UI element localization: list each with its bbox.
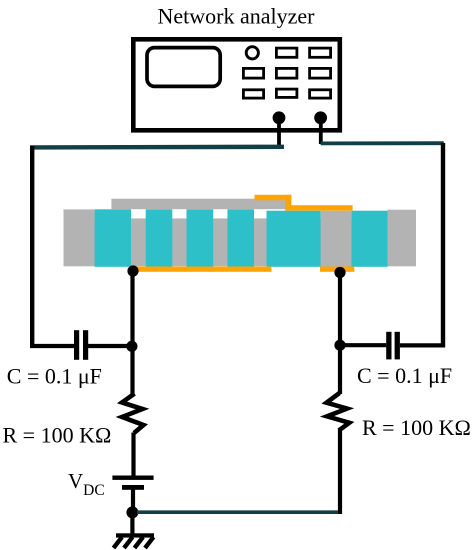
ground hatch 1 — [114, 537, 123, 548]
port 2 stem wire — [319, 118, 323, 144]
ground hatch 3 — [135, 537, 144, 548]
network analyzer display screen — [147, 48, 220, 87]
IDT finger 4 (teal) — [227, 209, 254, 266]
button row1 col2 — [276, 48, 297, 57]
wire: resistor R2 down to bottom return — [338, 430, 342, 514]
right transducer teal block 2 — [351, 211, 387, 267]
svg-text:VDC: VDC — [68, 469, 105, 499]
resistor R2 zigzag — [327, 393, 350, 431]
SAW device: left busbar block — [64, 209, 95, 266]
wire: node B to capacitor C2 — [340, 343, 386, 347]
svg-text:R = 100 KΩ: R = 100 KΩ — [362, 415, 471, 440]
svg-text:R = 100 KΩ: R = 100 KΩ — [3, 423, 112, 448]
port 2 terminal dot — [314, 111, 327, 124]
wire: top right teal wire from port2 to right rail — [321, 141, 444, 145]
svg-text:C = 0.1 μF: C = 0.1 μF — [7, 364, 102, 389]
wire: top left teal wire from port1 to left rail — [30, 145, 284, 150]
capacitor C2 plate 2 — [395, 332, 400, 360]
node: right device terminal dot — [334, 267, 345, 278]
ground hatch 4 — [145, 537, 154, 548]
node: left device terminal dot — [127, 265, 138, 276]
ground hatch 2 — [124, 537, 133, 548]
port 1 terminal dot — [273, 111, 286, 124]
orange top trace upper segment — [255, 195, 292, 201]
orange top trace step — [285, 195, 291, 211]
wire: bottom teal return wire — [137, 510, 342, 514]
button row2 col1 — [243, 68, 263, 78]
port 1 stem wire — [277, 118, 281, 147]
node A junction dot (left) — [126, 341, 137, 352]
orange bottom left trace — [133, 267, 272, 272]
battery V_DC short plate — [122, 485, 144, 490]
wire: node B to resistor R2 — [338, 345, 342, 394]
wire: node A to resistor R1 — [130, 346, 134, 394]
capacitor C1 plate 1 — [74, 330, 79, 360]
SAW device: right busbar block — [388, 210, 417, 267]
button row2 col2 — [276, 68, 297, 78]
svg-text:Network analyzer: Network analyzer — [158, 4, 316, 29]
button row3 col2 — [276, 89, 297, 97]
IDT finger 1 (teal) — [95, 209, 131, 266]
button row2 col3 — [310, 68, 331, 78]
wire: ground stem — [130, 512, 134, 535]
wire: resistor R1 to battery — [131, 433, 135, 477]
SAW device: top electrode bar — [111, 199, 289, 210]
wire: capacitor C1 to node A — [88, 344, 133, 348]
IDT finger 3 (teal) — [187, 209, 214, 266]
orange bottom right trace — [320, 267, 354, 272]
capacitor C2 plate 1 — [386, 332, 391, 360]
wire: left vertical rail — [30, 146, 34, 348]
wire: right vertical rail — [441, 143, 445, 348]
right transducer teal block 1 — [267, 211, 321, 267]
button row3 col3 — [310, 90, 331, 98]
right transducer gray finger — [321, 211, 352, 267]
capacitor C1 plate 2 — [83, 330, 88, 360]
network analyzer U1: chassis — [133, 39, 339, 130]
IDT finger 2 (teal) — [146, 209, 173, 266]
SAW device: substrate — [64, 218, 417, 266]
ground symbol bar — [116, 533, 154, 537]
ground node dot — [126, 506, 138, 518]
button row3 col1 — [243, 90, 263, 98]
wire: battery to ground node — [131, 489, 135, 512]
orange top trace lower segment — [285, 205, 352, 210]
battery V_DC long plate — [112, 476, 153, 480]
button row1 col3 — [310, 48, 331, 57]
node B junction dot (right) — [334, 340, 345, 351]
network analyzer knob — [246, 47, 258, 59]
wire: capacitor C2 to right rail — [400, 343, 445, 347]
wire: right device stem down — [338, 273, 342, 346]
svg-text:C = 0.1 μF: C = 0.1 μF — [357, 363, 452, 388]
resistor R1 zigzag — [122, 394, 144, 434]
wire: left rail to capacitor C1 — [30, 344, 74, 348]
wire: left device stem down — [130, 271, 134, 347]
